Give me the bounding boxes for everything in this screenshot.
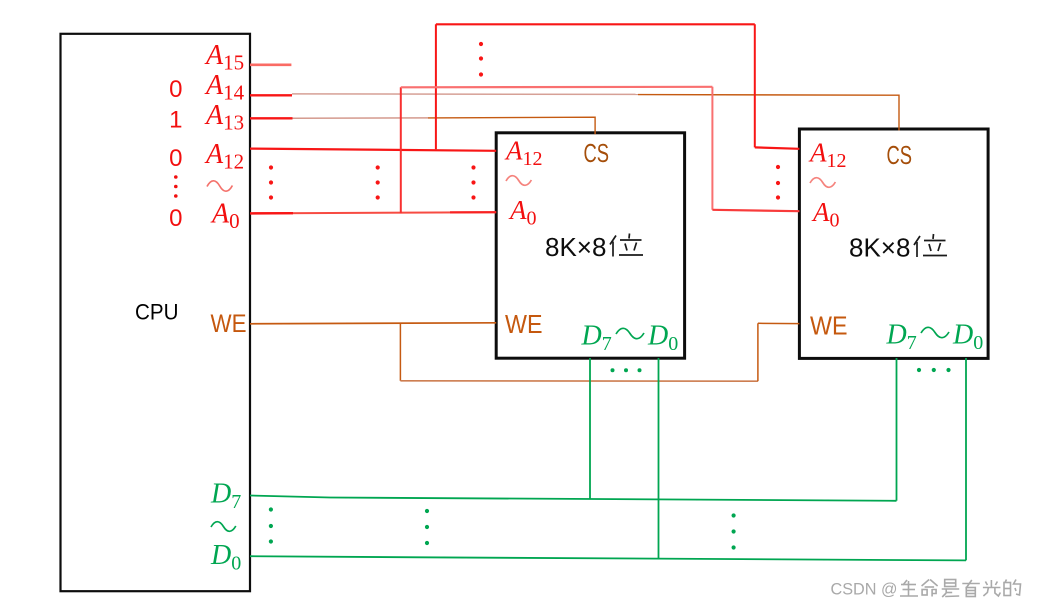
wire A14 to CS2: pale segment (292, 93, 638, 96)
wire WE CPU to chip1 (250, 323, 496, 324)
wire A13 to CS1: orange segment (428, 117, 595, 134)
svg-text:A0: A0 (210, 199, 240, 234)
watermark hanzi 命 (922, 580, 938, 597)
svg-text:CPU: CPU (135, 300, 179, 325)
watermark hanzi 是 (942, 580, 960, 598)
svg-text:A12: A12 (808, 138, 847, 173)
hanzi 位 (chip2) (914, 234, 947, 257)
svg-text:A0: A0 (811, 197, 840, 232)
data dots column 2 (425, 509, 429, 545)
svg-text:WE: WE (211, 310, 247, 338)
wire D7 chip2 vertical (896, 358, 898, 501)
label tilde (CPU data) (211, 522, 236, 532)
svg-text:1: 1 (169, 106, 182, 133)
memory chip U1 (8K×8位) box (496, 133, 684, 358)
watermark hanzi 的 (1004, 580, 1021, 596)
svg-text:0: 0 (169, 145, 182, 172)
wire A13 stub (250, 117, 293, 119)
address dots column 2 (376, 165, 380, 199)
wire D0 bus (250, 556, 966, 560)
data dots column 3 (732, 513, 736, 549)
label tilde (chip1) (506, 176, 531, 186)
watermark hanzi 光 (983, 580, 1001, 596)
wire WE branch up (757, 323, 759, 381)
address dots column 1 (A11..A1 between CPU and chip1) (269, 165, 273, 199)
wire A0 top route (401, 86, 713, 89)
wire D7 chip1 vertical (589, 358, 591, 499)
svg-text:CS: CS (584, 138, 610, 168)
svg-text:D7: D7 (581, 321, 612, 356)
wire A13 to CS1: pale segment (293, 117, 429, 119)
wire A0 right drop (711, 87, 713, 210)
svg-text:8K×8: 8K×8 (849, 233, 910, 263)
wire D0 chip2 vertical (965, 358, 967, 560)
svg-text:WE: WE (505, 309, 543, 339)
address dots column 3 (471, 165, 475, 199)
label tilde in D7~D0 (chip1) (616, 328, 644, 338)
wire D0 chip1 vertical (658, 358, 660, 558)
wire A12 top route (436, 23, 755, 25)
data dots row under chip1 (611, 368, 642, 372)
address dots column before chip2 (776, 165, 780, 200)
data dots column 1 (269, 507, 273, 543)
svg-text:A12: A12 (204, 139, 244, 174)
svg-text:D0: D0 (210, 540, 241, 575)
svg-text:A0: A0 (508, 195, 537, 230)
watermark hanzi 生 (900, 580, 918, 596)
svg-text:0: 0 (169, 205, 182, 232)
svg-text:D0: D0 (952, 320, 983, 355)
label tilde (chip2) (810, 178, 835, 188)
label tilde (CPU address) (207, 181, 232, 191)
address dots column top route (479, 42, 483, 77)
svg-text:8K×8: 8K×8 (545, 232, 606, 262)
svg-text:A12: A12 (504, 136, 543, 171)
svg-text:D0: D0 (647, 321, 678, 356)
svg-text:0: 0 (169, 76, 182, 103)
wire A12 right drop (754, 24, 756, 147)
CPU box (61, 34, 251, 591)
wire A0 stub bright (250, 212, 293, 215)
data dots row under chip2 (917, 368, 951, 372)
wire A12 bus CPU to chip1 (250, 149, 496, 151)
wire A12 into chip2 (755, 147, 800, 148)
wire A14 to CS2: orange segment (638, 95, 899, 131)
wire WE branch under chip1 (400, 380, 758, 382)
hanzi 位 (chip1) (610, 234, 643, 257)
svg-text:CS: CS (887, 140, 913, 170)
svg-text:WE: WE (810, 311, 848, 341)
svg-text:A13: A13 (204, 100, 244, 135)
memory chip U2 (8K×8位) box (799, 129, 988, 358)
svg-text:D7: D7 (886, 320, 917, 355)
svg-text:CSDN @: CSDN @ (831, 581, 898, 599)
wire A0 into chip2 (712, 210, 799, 211)
wire D7 bus (250, 496, 897, 501)
wire A0 chip1 entry bright (450, 211, 496, 213)
watermark hanzi 有 (962, 580, 980, 597)
wire A0 riser at x=401 (400, 87, 402, 213)
wire A14 stub (250, 94, 292, 96)
wire A12 riser at x=436 (435, 24, 437, 149)
wire WE branch down (399, 323, 401, 380)
wire A0 bus CPU to chip1 (250, 212, 496, 213)
svg-text:D7: D7 (210, 479, 241, 514)
wire WE into chip2 (758, 322, 800, 324)
CPU left vertical-ellipsis dots (174, 175, 178, 198)
wire A15 stub (250, 64, 291, 67)
label tilde in D7~D0 (chip2) (921, 327, 949, 337)
